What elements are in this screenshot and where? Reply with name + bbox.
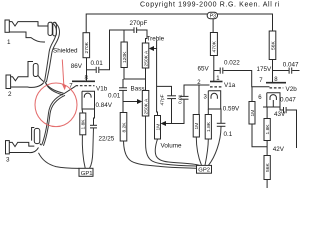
svg-text:1.8K: 1.8K (81, 119, 87, 130)
svg-text:Shielded: Shielded (53, 48, 78, 55)
svg-text:0.01: 0.01 (177, 94, 183, 104)
svg-text:0.047: 0.047 (280, 96, 296, 103)
svg-text:0.1: 0.1 (224, 131, 233, 138)
svg-text:43V: 43V (274, 111, 286, 118)
svg-text:GP1: GP1 (81, 171, 93, 177)
svg-text:0.047: 0.047 (283, 61, 299, 68)
svg-text:56K: 56K (265, 163, 271, 172)
svg-text:120K: 120K (122, 51, 128, 63)
svg-text:1.8K: 1.8K (265, 124, 271, 135)
svg-text:1M: 1M (155, 124, 161, 131)
svg-text:86V: 86V (71, 63, 83, 70)
svg-text:V1b: V1b (96, 85, 108, 92)
svg-text:Bass: Bass (131, 86, 145, 93)
svg-text:3: 3 (6, 157, 10, 164)
svg-text:250K A: 250K A (143, 98, 149, 115)
svg-text:470K: 470K (212, 40, 218, 52)
svg-text:1M: 1M (194, 123, 200, 130)
svg-text:2: 2 (8, 91, 12, 98)
svg-text:P3: P3 (210, 13, 216, 19)
svg-text:8.2K: 8.2K (121, 122, 127, 133)
svg-text:47pF: 47pF (160, 94, 166, 105)
svg-text:270K: 270K (84, 41, 90, 53)
svg-text:1: 1 (7, 39, 11, 46)
svg-text:Copyright 1999-2000 R.G. Keen.: Copyright 1999-2000 R.G. Keen. All ri (140, 1, 280, 8)
svg-text:Volume: Volume (161, 142, 183, 149)
svg-text:1M: 1M (250, 110, 256, 117)
svg-text:22/25: 22/25 (99, 135, 115, 142)
svg-text:56K: 56K (270, 41, 276, 50)
svg-text:GP2: GP2 (198, 168, 210, 174)
svg-text:270pF: 270pF (130, 20, 148, 27)
svg-text:0.01: 0.01 (91, 60, 104, 67)
svg-text:250K A: 250K A (143, 50, 149, 67)
svg-text:0.84V: 0.84V (96, 102, 113, 109)
svg-text:175V: 175V (257, 66, 273, 73)
svg-text:65V: 65V (198, 66, 210, 73)
svg-text:42V: 42V (273, 146, 285, 153)
svg-text:1.8K: 1.8K (206, 121, 212, 132)
svg-text:0.59V: 0.59V (223, 106, 240, 113)
svg-text:0.01: 0.01 (108, 92, 121, 99)
svg-text:V1a: V1a (224, 82, 236, 89)
svg-text:Treble: Treble (147, 36, 165, 43)
svg-text:0.022: 0.022 (224, 60, 240, 67)
svg-text:V2b: V2b (286, 86, 298, 93)
